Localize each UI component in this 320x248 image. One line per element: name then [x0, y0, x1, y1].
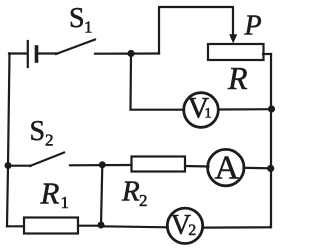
svg-text:1: 1	[84, 18, 93, 37]
wire S1 fixed contact to node	[95, 52, 159, 54]
wire R2 to ammeter A	[185, 165, 209, 168]
svg-text:2: 2	[139, 191, 148, 210]
svg-text:1: 1	[204, 106, 212, 122]
rheostat P resistor body R	[208, 44, 264, 60]
junction node S2 left	[5, 162, 12, 169]
label V2 in meter	[171, 210, 197, 241]
junction node R1 right	[98, 222, 105, 229]
label R2	[121, 176, 148, 211]
wiper arrow head	[229, 34, 237, 43]
ammeter A circle	[208, 149, 244, 185]
svg-text:R: R	[40, 176, 60, 211]
wire node down to bottom branch	[101, 165, 102, 225]
label V1 in meter	[188, 91, 212, 124]
svg-text:S: S	[69, 3, 85, 34]
label S1	[69, 3, 93, 37]
resistor R2	[132, 157, 186, 172]
voltmeter V2 circle	[167, 208, 202, 243]
wire node to voltmeter V2	[101, 226, 168, 227]
svg-text:R: R	[227, 60, 248, 96]
junction node V1 right	[268, 105, 275, 112]
junction node S2 right	[99, 161, 106, 168]
svg-text:1: 1	[61, 193, 70, 212]
junction node A right	[267, 165, 274, 172]
wire bottom-left to R1	[7, 225, 24, 227]
wire top-left to battery	[9, 52, 27, 54]
svg-text:R: R	[121, 176, 140, 208]
svg-text:2: 2	[188, 222, 196, 239]
wire left border	[7, 54, 10, 227]
wire battery to switch S1	[38, 52, 57, 54]
svg-text:S: S	[30, 116, 46, 147]
battery cell short plate	[35, 47, 39, 61]
switch S1 blade	[56, 40, 95, 55]
battery cell long plate	[27, 41, 29, 67]
label S2	[30, 116, 54, 150]
svg-text:2: 2	[45, 131, 54, 150]
wire right border	[270, 54, 271, 227]
svg-text:A: A	[215, 150, 240, 187]
wire P right terminal	[263, 53, 271, 55]
wire S2 pivot	[8, 165, 31, 167]
junction node after S1	[127, 50, 134, 57]
wire R1 to node	[78, 225, 101, 227]
wire node to voltmeter V1	[131, 55, 185, 110]
svg-text:P: P	[244, 11, 262, 42]
voltmeter V1 circle	[184, 93, 219, 128]
wire S2 fixed contact to node	[70, 164, 132, 167]
wire riser to wiper	[159, 7, 233, 54]
switch S2 blade	[30, 153, 64, 167]
wire V2 to bottom-right corner	[203, 226, 272, 229]
wire A to right border	[244, 167, 272, 170]
wire V1 to right border	[219, 108, 272, 111]
resistor R1	[24, 218, 78, 234]
label R1	[40, 176, 70, 213]
